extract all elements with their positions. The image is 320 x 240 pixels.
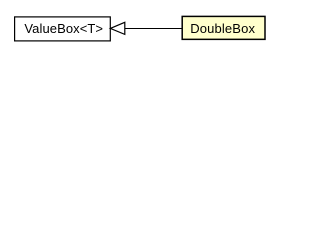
wire <box>125 28 182 30</box>
inheritance arrowhead (hollow triangle) <box>110 22 125 34</box>
class box DoubleBox <box>182 16 265 39</box>
background <box>0 0 281 59</box>
svg-text:ValueBox<T>: ValueBox<T> <box>24 21 103 36</box>
svg-text:DoubleBox: DoubleBox <box>190 21 255 36</box>
class box ValueBox<T> <box>15 17 111 41</box>
